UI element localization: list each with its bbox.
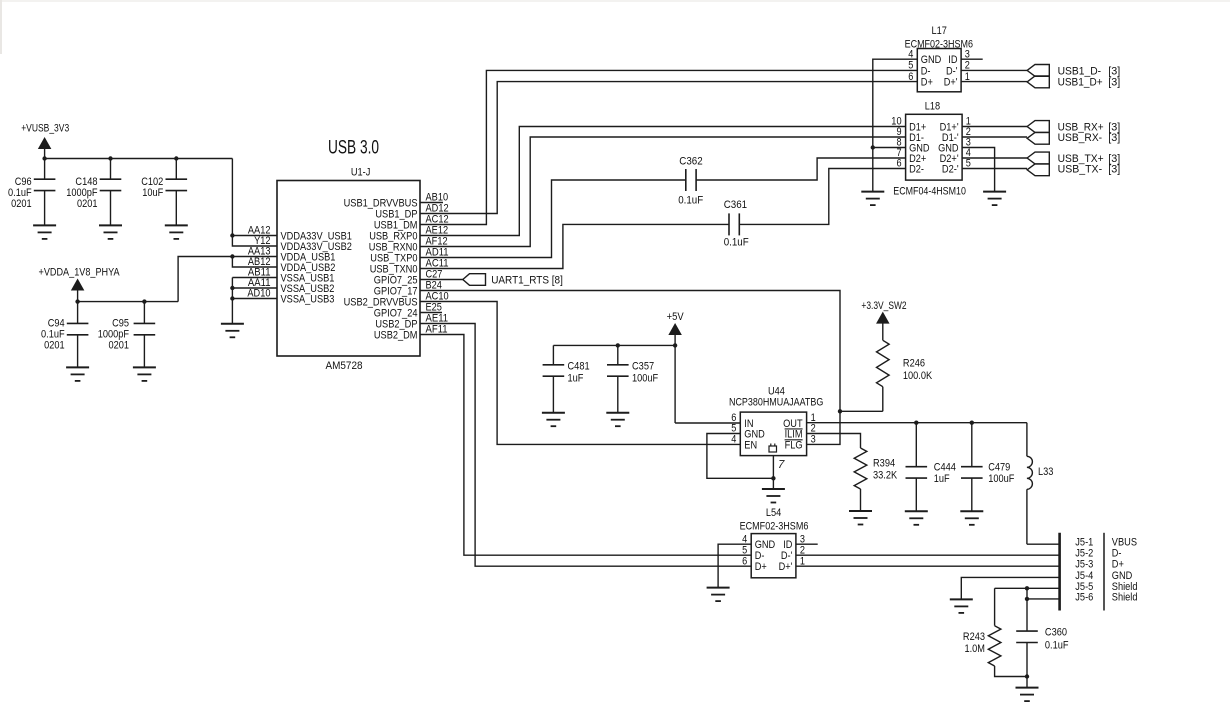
wire stub USB1_DRVVBUS (AB10)	[420, 202, 443, 204]
svg-text:Shield: Shield	[1112, 591, 1138, 603]
ground J5-4	[950, 598, 973, 600]
connector J5 bar	[1058, 533, 1061, 611]
junction OUT/C479	[970, 421, 974, 425]
svg-text:C357: C357	[632, 361, 654, 373]
capacitor C362 0.1uF	[685, 169, 687, 191]
svg-text:D+': D+'	[779, 561, 793, 573]
svg-text:L17: L17	[932, 25, 947, 37]
svg-text:D+': D+'	[944, 77, 958, 89]
wire VSSA bus	[232, 277, 277, 279]
resistor R243 1.0M	[994, 588, 996, 625]
svg-text:J5-6: J5-6	[1075, 591, 1093, 603]
wire GPIO7_25 (C27) to UART1_RTS	[420, 279, 463, 281]
junction 1V8/C95	[142, 299, 146, 303]
filter L18 ECMF04-4HSM10 body	[906, 114, 963, 180]
wire 1V8 to AA13	[178, 257, 277, 302]
wire L54 pin2 to J5-2	[796, 554, 1060, 556]
ground R394	[849, 510, 872, 512]
IC U44 NCP380HMUAJAATBG body	[740, 412, 806, 456]
svg-text:D2-: D2-	[909, 164, 924, 176]
junction 1V8/AB12 branch	[230, 254, 234, 258]
wire J5-4 GND drop	[961, 577, 1059, 599]
svg-text:USB_TX-: USB_TX-	[1058, 164, 1103, 176]
svg-text:R246: R246	[903, 358, 925, 370]
capacitor C95	[143, 302, 145, 324]
junction shield J5-6	[1025, 597, 1029, 601]
ground C96	[33, 224, 56, 226]
connector J5 pin table bar	[1103, 533, 1105, 611]
junction shield/C360 top	[1025, 586, 1029, 590]
svg-text:100uF: 100uF	[988, 473, 1014, 485]
wire USB_TXP0 AD11 to C362	[420, 180, 686, 258]
svg-text:R394: R394	[873, 458, 895, 470]
svg-text:D+: D+	[1112, 559, 1124, 571]
wire L17 pin2 to USB1_D- flag	[961, 69, 1027, 71]
IC U1-J AM5728 body	[277, 181, 420, 357]
junction VSSA/AA11	[230, 286, 234, 290]
net flag UART1_RTS [8]	[463, 274, 486, 286]
wire pin AD10	[232, 298, 277, 300]
wire USB_TXN0 AC11 to C361	[420, 224, 729, 268]
ground C481	[542, 412, 565, 414]
wire USB1_DP AD12 to L17 pin6	[420, 82, 917, 214]
svg-text:L54: L54	[766, 507, 781, 519]
svg-text:USB2_DM: USB2_DM	[374, 330, 418, 342]
svg-text:ECMF04-4HSM10: ECMF04-4HSM10	[893, 186, 966, 198]
capacitor C360 0.1uF	[1026, 588, 1028, 631]
svg-text:D2-': D2-'	[942, 164, 959, 176]
wire L33 to J5-1	[1027, 543, 1060, 545]
wire L17 pin1 to USB1_D+ flag	[961, 81, 1027, 83]
ground C444	[905, 510, 928, 512]
capacitor C357 100uF	[617, 345, 619, 364]
wire L18 pin3 GND drop	[962, 148, 995, 192]
ground C95	[133, 366, 156, 368]
wire USB2_DRVVBUS AC10 to U44 EN	[420, 302, 740, 445]
U44 pad pin 7	[772, 456, 774, 489]
ground C94	[66, 366, 89, 368]
svg-text:33.2K: 33.2K	[873, 470, 898, 482]
U44 thermal pad symbol	[769, 446, 777, 452]
svg-text:10uF: 10uF	[142, 187, 163, 199]
ground L54	[707, 587, 730, 589]
svg-text:C360: C360	[1045, 627, 1067, 639]
svg-text:C444: C444	[934, 461, 956, 473]
junction pad/EN/GND	[771, 476, 775, 480]
svg-text:D-': D-'	[946, 65, 958, 77]
svg-text:[3]: [3]	[1108, 65, 1120, 77]
wire GPIO7_17 B24 to U44 FLG	[420, 291, 840, 445]
capacitor C148	[110, 159, 112, 180]
ground C360	[1016, 687, 1039, 689]
svg-text:[3]: [3]	[1108, 132, 1120, 144]
page edge shading top-left	[0, 0, 2, 54]
net flag USB_TX-	[962, 168, 1027, 170]
svg-text:0.1uF: 0.1uF	[1045, 640, 1069, 652]
svg-text:ECMF02-3HSM6: ECMF02-3HSM6	[740, 521, 809, 533]
wire USB_RXN0 AF12 to L18 pin9	[420, 137, 906, 247]
svg-text:1uF: 1uF	[568, 373, 584, 385]
wire 1V8 rail	[78, 301, 179, 303]
svg-text:U1-J: U1-J	[351, 167, 371, 179]
ground C357	[606, 412, 629, 414]
wire U44 GND pin5 loop	[707, 434, 774, 479]
wire L54 pin1 to J5-3	[796, 565, 1060, 567]
junction VSSA/AD10	[230, 296, 234, 300]
svg-text:0201: 0201	[77, 198, 98, 210]
net flag USB_RX-	[962, 136, 1027, 138]
wire stub L54 pin3 ID	[796, 543, 818, 545]
junction 3V3/C102	[174, 156, 178, 160]
wire J5-5 shield	[995, 587, 1060, 589]
svg-text:L33: L33	[1038, 466, 1053, 478]
wire L54 pin4 GND drop	[718, 544, 751, 587]
svg-text:1.0M: 1.0M	[965, 643, 986, 655]
svg-text:0201: 0201	[109, 340, 130, 352]
ground VSSA	[221, 323, 244, 325]
svg-text:D+: D+	[755, 561, 767, 573]
junction OUT/C444	[914, 421, 918, 425]
svg-text:D+: D+	[921, 77, 933, 89]
wire pin AA11	[232, 287, 277, 289]
svg-text:+5V: +5V	[667, 311, 685, 323]
filter L54 ECMF02-3HSM6 body	[751, 534, 796, 578]
wire ILIM to R394	[807, 434, 861, 449]
svg-text:FLG: FLG	[785, 439, 803, 451]
wire L18 pin8 GND	[873, 147, 906, 149]
capacitor C94	[77, 302, 79, 324]
wire L17 pin4 GND drop	[873, 59, 918, 191]
net flag USB_RX+	[962, 126, 1027, 128]
wire stub L17 pin3 ID	[961, 58, 983, 60]
svg-text:VSSA_USB3: VSSA_USB3	[281, 294, 335, 306]
wire J5-6 shield	[1027, 598, 1060, 600]
wire +5V cap rail	[553, 344, 675, 346]
svg-text:0201: 0201	[11, 198, 32, 210]
junction L17/L18 GND	[871, 145, 875, 149]
wire 3V3 rail	[45, 158, 233, 160]
ground C102	[165, 224, 188, 226]
svg-text:USB1_D+: USB1_D+	[1058, 77, 1103, 89]
ground L18 right	[983, 191, 1006, 193]
svg-text:+3.3V_SW2: +3.3V_SW2	[861, 300, 906, 312]
svg-text:D-: D-	[921, 65, 931, 77]
capacitor C96	[44, 159, 46, 180]
capacitor C102	[175, 159, 177, 180]
svg-text:[3]: [3]	[1108, 164, 1120, 176]
svg-text:C361: C361	[724, 199, 747, 211]
svg-text:AM5728: AM5728	[325, 360, 362, 372]
svg-text:+VUSB_3V3: +VUSB_3V3	[21, 122, 69, 134]
svg-text:100uF: 100uF	[632, 373, 658, 385]
svg-text:USB_RX-: USB_RX-	[1058, 132, 1103, 144]
wire C361 to L18 pin6	[739, 169, 905, 225]
net flag USB1_D+	[1027, 76, 1049, 88]
capacitor C361 0.1uF	[728, 213, 730, 235]
svg-text:AF11: AF11	[426, 324, 448, 336]
net flag USB_TX+	[962, 157, 1027, 159]
svg-text:C479: C479	[988, 461, 1010, 473]
inductor L33	[1026, 423, 1028, 457]
wire stub GPIO7_24 (E25)	[420, 312, 442, 314]
wire C362 to L18 pin7	[696, 158, 906, 180]
net flag USB1_D-	[1027, 65, 1049, 77]
wire pin AA12	[232, 235, 277, 237]
capacitor C481 1uF	[552, 345, 554, 364]
ground C479	[960, 510, 983, 512]
svg-text:[3]: [3]	[1108, 77, 1120, 89]
junction 1V8/C94	[75, 299, 79, 303]
svg-text:AD10: AD10	[247, 288, 270, 300]
svg-text:ID: ID	[948, 54, 957, 66]
svg-text:J5-3: J5-3	[1075, 559, 1093, 571]
junction R243/C360 bottom	[1025, 674, 1029, 678]
capacitor C444 1uF	[915, 423, 917, 467]
svg-text:C362: C362	[679, 156, 702, 168]
svg-text:100.0K: 100.0K	[903, 370, 933, 382]
wire U44 OUT rail	[807, 422, 1027, 424]
capacitor C479 100uF	[971, 423, 973, 467]
resistor R394 33.2K	[854, 448, 867, 489]
svg-text:R243: R243	[963, 631, 985, 643]
svg-text:NCP380HMUAJAATBG: NCP380HMUAJAATBG	[729, 396, 823, 408]
svg-text:USB 3.0: USB 3.0	[328, 138, 379, 159]
svg-text:EN: EN	[744, 439, 757, 451]
wire R246 to FLG net	[840, 410, 883, 412]
junction 3V3/C96	[42, 156, 46, 160]
filter L17 ECMF02-3HSM6 body	[917, 49, 961, 92]
svg-text:1uF: 1uF	[934, 473, 950, 485]
ground U44 pad	[762, 488, 785, 490]
wire USB1_DM AC12 to L17 pin5	[420, 70, 917, 224]
wire USB_RXP0 AE12 to L18 pin10	[420, 127, 906, 236]
junction 3V3/C148	[108, 156, 112, 160]
resistor R246 100.0K	[877, 340, 890, 386]
wire 3V3 bus drop to AA12/Y12	[232, 159, 277, 247]
junction +5V rail	[673, 343, 677, 347]
ground C148	[99, 224, 122, 226]
svg-text:USB1_D-: USB1_D-	[1058, 65, 1102, 77]
junction R246/FLG	[838, 409, 842, 413]
svg-text:L18: L18	[925, 101, 940, 113]
svg-text:0.1uF: 0.1uF	[678, 195, 703, 207]
svg-text:C481: C481	[568, 361, 590, 373]
svg-text:0201: 0201	[44, 340, 65, 352]
junction 3V3/AA12	[230, 233, 234, 237]
svg-text:UART1_RTS [8]: UART1_RTS [8]	[491, 275, 563, 287]
wire branch to AB12	[232, 257, 277, 268]
ground L17/L18	[861, 191, 884, 193]
svg-text:GND: GND	[921, 54, 942, 66]
svg-text:0.1uF: 0.1uF	[724, 237, 749, 249]
svg-text:+VDDA_1V8_PHYA: +VDDA_1V8_PHYA	[39, 267, 121, 279]
junction C357 rail	[616, 343, 620, 347]
wire +5V to U44 IN	[675, 422, 740, 424]
svg-text:ECMF02-3HSM6: ECMF02-3HSM6	[905, 38, 973, 50]
wire USB2_DM AF11 to L54 pin5	[420, 335, 751, 556]
wire USB2_DP AE11 to L54 pin6	[420, 324, 751, 567]
